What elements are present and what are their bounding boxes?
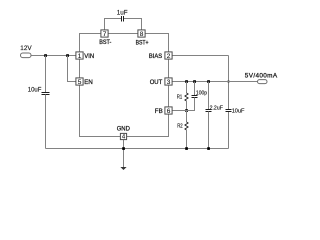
node junction 2.2uF top — [207, 80, 210, 83]
node junction 100p top — [193, 80, 196, 83]
resistor R1 — [185, 93, 188, 101]
svg-text:1: 1 — [78, 53, 82, 60]
svg-text:5V/400mA: 5V/400mA — [245, 72, 278, 79]
resistor R2 — [185, 122, 188, 130]
capacitor 100p — [192, 95, 198, 97]
port 12V — [21, 53, 32, 58]
svg-text:R1: R1 — [177, 94, 182, 100]
svg-text:1uF: 1uF — [117, 10, 128, 17]
wire BIAS lead — [172, 55, 228, 57]
svg-text:BIAS: BIAS — [149, 53, 162, 60]
svg-text:EN: EN — [84, 79, 93, 86]
node junction EN branch — [66, 54, 69, 57]
wire EN branch — [68, 56, 76, 82]
svg-text:VIN: VIN — [84, 53, 94, 60]
port 5V/400mA — [258, 80, 268, 84]
ground — [120, 167, 126, 170]
capacitor 10uF output — [226, 109, 232, 111]
wire bottom ground rail — [46, 148, 229, 150]
node junction 2.2uF bottom — [207, 147, 210, 150]
pin 8 BST+ — [136, 30, 149, 47]
svg-text:100p: 100p — [196, 90, 207, 96]
svg-text:2: 2 — [167, 53, 171, 60]
node junction input-cap branch — [44, 54, 47, 57]
wire 2.2uF branch lower — [208, 112, 210, 149]
svg-text:12V: 12V — [20, 45, 32, 52]
wire OUT rail — [172, 81, 257, 83]
pin 7 BST- — [99, 30, 111, 46]
wire R1 to FB junction — [186, 101, 188, 111]
svg-text:8: 8 — [140, 31, 144, 38]
wire 2.2uF branch upper — [208, 82, 210, 110]
capacitor 10uF input — [42, 92, 50, 94]
pin 1 VIN — [76, 52, 95, 60]
svg-text:BST+: BST+ — [136, 40, 149, 46]
svg-text:10uF: 10uF — [28, 88, 42, 94]
wire input cap branch upper — [45, 56, 47, 93]
IC U1 regulator body — [80, 34, 169, 137]
svg-text:3: 3 — [167, 79, 171, 86]
wire 12V to VIN — [31, 55, 76, 57]
pin 4 GND — [117, 126, 131, 141]
svg-text:FB: FB — [155, 108, 163, 115]
wire input cap branch lower — [45, 95, 47, 149]
wire FB lead — [172, 110, 186, 112]
pin 6 FB — [155, 107, 172, 115]
svg-text:6: 6 — [167, 108, 171, 115]
pin 2 BIAS — [149, 52, 172, 60]
wire R2 branch upper — [186, 111, 188, 123]
node small crossing dot — [228, 81, 230, 83]
wire 100p branch lower L — [187, 98, 195, 111]
svg-text:OUT: OUT — [150, 79, 163, 86]
wire GND pin lead — [123, 140, 125, 168]
wire BIAS/10uF vertical upper — [228, 56, 230, 110]
pin 5 EN — [76, 78, 93, 86]
svg-text:2.2uF: 2.2uF — [210, 105, 223, 111]
svg-text:5: 5 — [78, 79, 82, 86]
pin 3 OUT — [150, 78, 172, 86]
wire R2 branch lower — [186, 130, 188, 149]
svg-text:BST-: BST- — [99, 40, 111, 46]
node junction FB — [185, 109, 188, 112]
svg-text:7: 7 — [103, 31, 107, 38]
wire R1 branch upper — [186, 82, 188, 94]
capacitor 2.2uF — [206, 109, 212, 111]
svg-text:10uF: 10uF — [232, 108, 245, 114]
capacitor C 1uF — [121, 16, 123, 22]
node junction R2 bottom — [185, 147, 188, 150]
wire 100p branch upper — [194, 82, 196, 96]
svg-text:GND: GND — [117, 126, 131, 133]
svg-text:R2: R2 — [177, 123, 183, 129]
wire BST- riser — [105, 19, 122, 30]
wire 10uF vertical lower — [228, 112, 230, 149]
wire BST+ riser — [124, 19, 142, 30]
node junction GND rail — [122, 147, 125, 150]
node junction R1 top — [185, 80, 188, 83]
